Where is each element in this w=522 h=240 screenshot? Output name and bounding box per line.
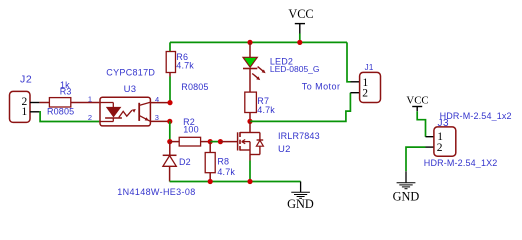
svg-text:HDR-M-2.54_1x2: HDR-M-2.54_1x2 (440, 111, 512, 121)
junction VCC on bus (297, 40, 302, 45)
svg-text:2: 2 (437, 142, 443, 154)
svg-text:R3: R3 (60, 87, 72, 97)
J1 pin2 stub (350, 92, 359, 94)
junction R8 on bus (208, 179, 213, 184)
svg-text:HDR-M-2.54_1X2: HDR-M-2.54_1X2 (424, 158, 498, 168)
svg-text:CYPC817D: CYPC817D (106, 68, 155, 78)
wire J2.1 to U3 pin2 (39, 112, 99, 122)
svg-text:100: 100 (183, 125, 198, 135)
wire J2.2 to R3 (39, 102, 49, 104)
svg-text:4.7k: 4.7k (257, 105, 275, 115)
svg-text:VCC: VCC (288, 7, 313, 21)
svg-text:D2: D2 (179, 157, 191, 167)
connector J2 (10, 91, 31, 122)
wire pin3 node down to R2/D2 node (169, 121, 171, 141)
LED D LED2 (243, 42, 266, 92)
diode D2 (163, 142, 177, 182)
svg-text:1N4148W-HE3-08: 1N4148W-HE3-08 (117, 187, 195, 197)
wire gate node to U2 gate (220, 141, 237, 143)
junction node R2/D2 (167, 139, 172, 144)
svg-text:J3: J3 (438, 118, 450, 129)
svg-text:1: 1 (88, 94, 92, 103)
J2 pin 1 stub (30, 111, 40, 113)
junction node U3 pin4 (167, 100, 172, 105)
junction R2/R8 (208, 139, 213, 144)
svg-text:R0805: R0805 (181, 82, 208, 92)
svg-text:U2: U2 (278, 144, 291, 155)
ground symbol J3 (397, 171, 416, 188)
wire R6 to U3 pin4 node (169, 77, 171, 103)
junction drain node (247, 119, 252, 124)
connector J1 (360, 72, 381, 102)
ground symbol main (291, 182, 310, 199)
VCC symbol J3 (412, 107, 422, 112)
resistor R7 (245, 92, 257, 112)
junction gate node (218, 139, 223, 144)
MOSFET U2 IRLR7843 (238, 121, 264, 160)
wire VCC stub to bus (299, 34, 301, 43)
svg-text:R0805: R0805 (47, 107, 74, 117)
R7 bottom lead (249, 113, 251, 122)
wire drain node to J1 pin2 (250, 93, 350, 122)
svg-text:J1: J1 (365, 63, 374, 72)
wire bus to R6 (169, 42, 171, 51)
connector J3 (434, 127, 456, 156)
top VCC bus wire (170, 41, 347, 43)
resistor R3 (49, 98, 70, 107)
svg-text:GND: GND (393, 190, 420, 204)
svg-text:U3: U3 (124, 84, 137, 95)
svg-text:J2: J2 (20, 73, 32, 85)
J3 pin2 stub (426, 146, 434, 148)
svg-text:VCC: VCC (406, 94, 428, 106)
resistor R2 (170, 137, 210, 146)
svg-text:To Motor: To Motor (302, 82, 341, 92)
resistor R6 (166, 52, 175, 73)
wire R2 node to gate node (210, 141, 220, 143)
svg-text:2: 2 (362, 87, 368, 99)
svg-text:4.7k: 4.7k (217, 167, 235, 177)
junction source on bus (247, 179, 252, 184)
resistor R8 (205, 142, 215, 182)
wire U3 pin4 to node (150, 102, 170, 104)
svg-text:4.7k: 4.7k (176, 61, 194, 71)
svg-text:LED-0805_G: LED-0805_G (270, 64, 320, 74)
wire U3 pin3 to node (150, 120, 170, 122)
svg-text:1: 1 (21, 106, 27, 118)
J3 pin1 stub (426, 136, 434, 138)
R6 bottom lead (169, 73, 171, 77)
svg-text:R8: R8 (217, 157, 229, 167)
optocoupler U3 (99, 97, 150, 126)
svg-text:GND: GND (287, 197, 314, 211)
J2 pin 2 stub (30, 102, 40, 104)
wire bus to J1 pin1 (347, 42, 351, 81)
junction node U3 pin3 (167, 119, 172, 124)
wire R3 to U3 pin1 (71, 102, 100, 104)
bottom GND bus wire (170, 181, 301, 183)
junction LED2 on bus (247, 40, 252, 45)
J1 pin1 stub (351, 81, 360, 83)
wire J3 pin2 to GND (406, 147, 426, 171)
VCC symbol top (295, 24, 305, 34)
wire VCC to J3 pin1 (417, 111, 425, 137)
wire U2 source to bottom bus (249, 161, 251, 182)
svg-text:IRLR7843: IRLR7843 (278, 131, 320, 141)
svg-text:2: 2 (88, 113, 92, 122)
